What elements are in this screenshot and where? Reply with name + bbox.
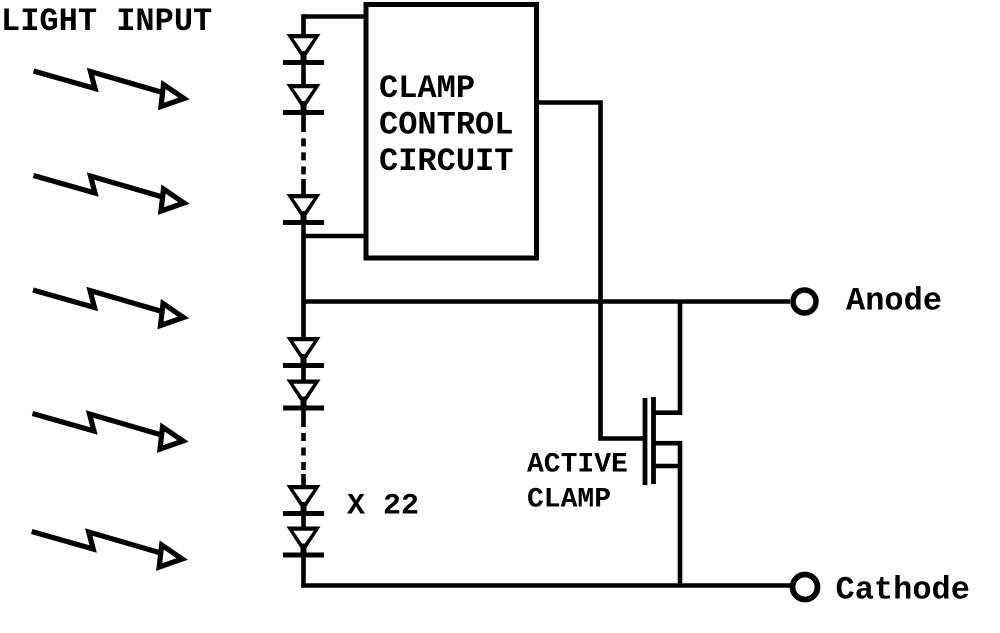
svg-text:CLAMP: CLAMP [527, 485, 611, 516]
svg-text:Anode: Anode [846, 283, 942, 320]
svg-text:X 22: X 22 [347, 490, 419, 524]
svg-text:CONTROL: CONTROL [379, 107, 513, 144]
svg-text:CIRCUIT: CIRCUIT [379, 143, 513, 180]
svg-text:LIGHT INPUT: LIGHT INPUT [1, 3, 212, 40]
svg-text:ACTIVE: ACTIVE [527, 450, 628, 481]
svg-text:Cathode: Cathode [836, 572, 970, 609]
svg-text:CLAMP: CLAMP [379, 70, 475, 107]
